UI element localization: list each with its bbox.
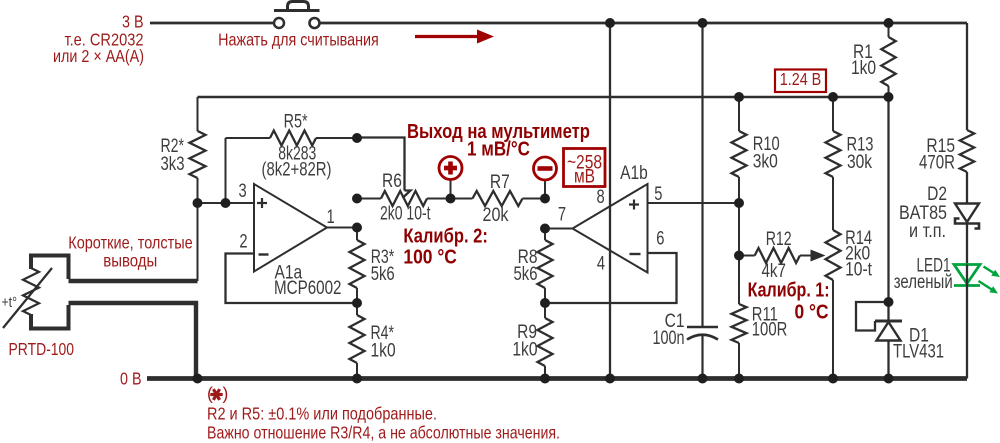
svg-text:2k0 10-t: 2k0 10-t <box>380 204 431 225</box>
label output to multimeter <box>407 121 590 161</box>
op-amp A1a <box>239 181 342 299</box>
probe plus output <box>439 157 462 199</box>
footnote line 1 <box>207 404 437 424</box>
LED1 emission arrows <box>979 267 1000 294</box>
svg-text:+t°: +t° <box>2 294 18 311</box>
probe minus output <box>534 157 557 199</box>
label 0V <box>120 369 142 389</box>
svg-text:100n: 100n <box>653 328 685 349</box>
node 1.24V label box <box>775 69 826 92</box>
wire pin3 input <box>198 202 255 204</box>
op-amp A1b <box>558 163 665 275</box>
wire 3V rail left <box>150 22 273 25</box>
battery label 2xAA <box>53 46 144 66</box>
wire R5 junction to R6 wiper <box>357 138 411 199</box>
resistor R12 <box>739 229 812 282</box>
svg-text:Короткие, толстые: Короткие, толстые <box>68 233 193 253</box>
svg-text:100 °C: 100 °C <box>403 247 457 269</box>
wire sensor bottom lead (thick) <box>69 303 197 377</box>
arrow current direction <box>415 30 494 44</box>
resistor R15 <box>919 23 974 204</box>
resistor R8 <box>514 229 553 304</box>
svg-text:(8k2+82R): (8k2+82R) <box>262 160 332 181</box>
svg-text:1k0: 1k0 <box>371 341 396 362</box>
svg-text:1k0: 1k0 <box>512 340 537 361</box>
svg-text:R2 и R5: ±0.1% или подобранные: R2 и R5: ±0.1% или подобранные. <box>207 404 437 424</box>
wire A1b supply (pins 8/4) <box>609 23 611 379</box>
resistor R7 <box>451 172 546 226</box>
svg-text:D2: D2 <box>927 184 947 205</box>
wire R1 bottom to D1 <box>887 97 889 321</box>
sensor arrow (+t) <box>2 268 53 328</box>
svg-text:470R: 470R <box>919 153 955 174</box>
svg-text:8: 8 <box>597 187 605 208</box>
svg-text:5k6: 5k6 <box>514 264 538 285</box>
svg-text:PRTD-100: PRTD-100 <box>9 339 75 359</box>
svg-text:4: 4 <box>597 254 606 275</box>
svg-text:A1b: A1b <box>620 163 648 184</box>
wire pin5 input <box>648 202 740 204</box>
wire 1.24V reference rail <box>198 96 891 99</box>
wire pin2 input <box>226 254 358 304</box>
svg-text:1k0: 1k0 <box>851 58 876 79</box>
wire 3V rail right <box>321 22 968 25</box>
svg-text:10-t: 10-t <box>845 260 872 281</box>
svg-text:3k3: 3k3 <box>161 154 185 175</box>
sensor PRTD-100 body <box>23 256 69 329</box>
resistor R6 trimmer <box>357 171 451 225</box>
svg-text:и т.п.: и т.п. <box>909 221 946 242</box>
pushbutton S1 actuator bar <box>274 9 320 12</box>
wire pin5 node to R12 <box>738 203 740 256</box>
node ~258 mV label box <box>564 149 606 188</box>
svg-text:выводы: выводы <box>103 251 157 271</box>
svg-text:Калибр. 2:: Калибр. 2: <box>403 226 488 248</box>
svg-text:20k: 20k <box>483 205 509 226</box>
shunt regulator D1 TLV431 <box>856 302 944 379</box>
svg-text:100R: 100R <box>752 320 788 341</box>
capacitor C1 <box>653 23 719 379</box>
resistor R1 <box>851 23 896 97</box>
resistor R4 <box>350 303 396 379</box>
resistor R13 <box>826 97 874 230</box>
svg-text:R12: R12 <box>766 229 792 250</box>
label short thick leads <box>68 233 193 271</box>
resistor R11 <box>732 256 788 379</box>
svg-text:3 В: 3 В <box>122 12 144 32</box>
svg-text:или 2 × AA(A): или 2 × AA(A) <box>53 46 144 66</box>
svg-text:7: 7 <box>558 205 566 226</box>
resistor R2 <box>161 97 206 203</box>
battery label CR2032 <box>65 30 144 50</box>
svg-text:3k0: 3k0 <box>753 152 778 173</box>
wire A1b output <box>545 228 573 230</box>
svg-text:MCP6002: MCP6002 <box>274 278 342 299</box>
diode D2 BAT85 <box>899 184 979 242</box>
svg-text:0 °C: 0 °C <box>795 302 829 324</box>
label LED1 <box>894 256 953 294</box>
svg-text:30k: 30k <box>847 152 873 173</box>
svg-text:R6: R6 <box>382 171 402 192</box>
svg-text:1.24 В: 1.24 В <box>780 69 822 89</box>
resistor R9 <box>512 303 552 379</box>
footnote asterisk <box>207 384 228 404</box>
svg-text:6: 6 <box>656 228 664 249</box>
label press to read <box>218 30 379 50</box>
footnote line 2 <box>207 423 560 443</box>
svg-text:R5*: R5* <box>284 111 308 132</box>
battery label 3 V <box>122 12 144 32</box>
pushbutton S1 cap <box>288 2 309 11</box>
resistor R5 <box>226 111 358 203</box>
wire A1a output <box>327 227 357 229</box>
svg-text:R7: R7 <box>490 172 510 193</box>
svg-text:Важно отношение R3/R4, а не аб: Важно отношение R3/R4, а не абсолютные з… <box>207 423 560 443</box>
svg-text:TLV431: TLV431 <box>893 342 944 363</box>
wire 0V rail <box>147 376 967 381</box>
label PRTD-100 <box>9 339 75 359</box>
resistor R3 <box>350 228 395 304</box>
svg-text:0 В: 0 В <box>120 369 142 389</box>
svg-text:5k6: 5k6 <box>371 264 395 285</box>
pushbutton S1 contacts <box>274 18 320 28</box>
resistor R14 trimmer <box>826 228 873 379</box>
label calibration 2 <box>403 226 488 269</box>
svg-text:мВ: мВ <box>574 166 595 187</box>
svg-text:Нажать для считывания: Нажать для считывания <box>218 30 379 50</box>
wire sensor top lead (thick) <box>69 203 198 281</box>
wire pin6 feedback <box>545 253 677 303</box>
svg-text:Калибр. 1:: Калибр. 1: <box>748 280 830 302</box>
svg-text:зеленый: зеленый <box>894 272 953 293</box>
LED LED1 green <box>954 265 980 379</box>
wiper arrow into R14 <box>811 250 826 262</box>
svg-text:5: 5 <box>654 184 662 205</box>
wire D2 to LED1 <box>966 224 968 265</box>
resistor R10 <box>732 97 780 203</box>
svg-text:1: 1 <box>327 207 335 228</box>
svg-text:2: 2 <box>239 232 247 253</box>
svg-text:): ) <box>223 384 229 404</box>
svg-text:1 мВ/°C: 1 мВ/°C <box>467 139 530 161</box>
svg-text:3: 3 <box>239 181 247 202</box>
label calibration 1 <box>748 280 830 324</box>
